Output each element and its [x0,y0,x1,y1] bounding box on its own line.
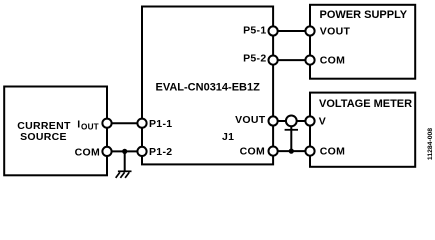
svg-text:J1: J1 [222,131,234,143]
svg-text:POWER SUPPLY: POWER SUPPLY [320,9,408,21]
svg-text:P1-2: P1-2 [149,146,172,158]
svg-text:VOUT: VOUT [235,114,266,126]
svg-text:P5-2: P5-2 [243,53,266,65]
svg-text:COM: COM [320,146,345,158]
svg-text:OUT: OUT [81,122,99,131]
svg-text:COM: COM [240,146,265,158]
svg-text:VOLTAGE METER: VOLTAGE METER [319,98,412,110]
svg-text:P1-1: P1-1 [149,118,172,130]
svg-text:SOURCE: SOURCE [20,131,67,143]
svg-text:11284-008: 11284-008 [427,128,434,160]
svg-text:COM: COM [320,55,345,67]
svg-text:VOUT: VOUT [320,26,351,38]
svg-text:P5-1: P5-1 [243,24,266,36]
svg-text:EVAL-CN0314-EB1Z: EVAL-CN0314-EB1Z [156,82,261,94]
svg-text:COM: COM [75,147,100,159]
svg-text:I: I [77,119,80,131]
svg-text:V: V [319,116,326,128]
